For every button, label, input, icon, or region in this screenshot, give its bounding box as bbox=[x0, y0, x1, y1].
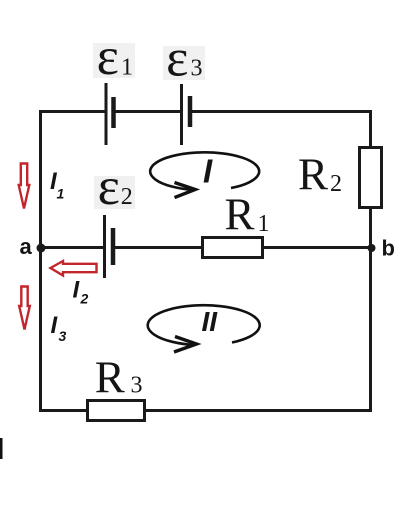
label I2 bbox=[73, 276, 89, 306]
svg-text:II: II bbox=[202, 306, 219, 337]
svg-text:3: 3 bbox=[131, 373, 143, 399]
label E2 background tint bbox=[94, 176, 135, 209]
svg-text:1: 1 bbox=[57, 186, 65, 202]
current arrow I2 (red, left) bbox=[51, 261, 97, 276]
svg-text:1: 1 bbox=[121, 55, 133, 81]
battery E3 bbox=[182, 84, 191, 145]
svg-text:R: R bbox=[298, 150, 328, 200]
node b bbox=[368, 244, 376, 252]
svg-text:ε: ε bbox=[97, 28, 119, 86]
battery E1 bbox=[106, 83, 114, 145]
label I3 bbox=[51, 312, 67, 344]
label E1 bbox=[97, 28, 133, 86]
svg-text:ε: ε bbox=[98, 158, 120, 216]
wire left side bbox=[39, 110, 42, 412]
battery E2 bbox=[105, 215, 114, 278]
label R2 bbox=[298, 150, 342, 200]
svg-text:2: 2 bbox=[330, 171, 342, 197]
wire middle segment left bbox=[41, 246, 105, 249]
svg-text:3: 3 bbox=[59, 328, 67, 344]
svg-text:2: 2 bbox=[80, 291, 89, 307]
loop II arrow bbox=[148, 305, 260, 352]
label R1 bbox=[225, 190, 270, 240]
label E3 background tint bbox=[163, 46, 205, 80]
loop I arrow bbox=[150, 152, 259, 197]
svg-text:I: I bbox=[203, 153, 213, 190]
current arrow I3 (red, down) bbox=[19, 287, 30, 330]
label R3 bbox=[95, 353, 143, 403]
wire middle segment center bbox=[113, 246, 203, 249]
node a bbox=[37, 244, 46, 253]
svg-text:b: b bbox=[382, 236, 395, 261]
svg-text:2: 2 bbox=[121, 184, 133, 210]
resistor R2 bbox=[360, 148, 382, 208]
svg-text:a: a bbox=[20, 234, 33, 259]
cursor mark bbox=[0, 438, 3, 459]
wire right side upper bbox=[369, 110, 372, 148]
label E2 bbox=[98, 158, 133, 216]
svg-text:3: 3 bbox=[191, 56, 203, 82]
svg-text:R: R bbox=[225, 190, 255, 240]
svg-text:1: 1 bbox=[258, 211, 270, 237]
svg-text:R: R bbox=[95, 353, 125, 403]
label E3 bbox=[166, 30, 202, 88]
wire top segment middle bbox=[114, 110, 182, 113]
svg-text:ε: ε bbox=[166, 30, 188, 88]
wire bottom segment right bbox=[144, 409, 372, 412]
wire top segment right bbox=[190, 110, 372, 113]
wire top segment left bbox=[39, 110, 106, 113]
resistor R1 bbox=[203, 238, 263, 258]
wire right side lower bbox=[369, 207, 372, 412]
current arrow I1 (red, down) bbox=[19, 164, 30, 209]
label E1 background tint bbox=[93, 43, 135, 78]
wire bottom segment left bbox=[39, 409, 88, 412]
wire middle segment right bbox=[262, 246, 371, 249]
resistor R3 bbox=[88, 401, 145, 421]
label I1 bbox=[50, 168, 65, 202]
